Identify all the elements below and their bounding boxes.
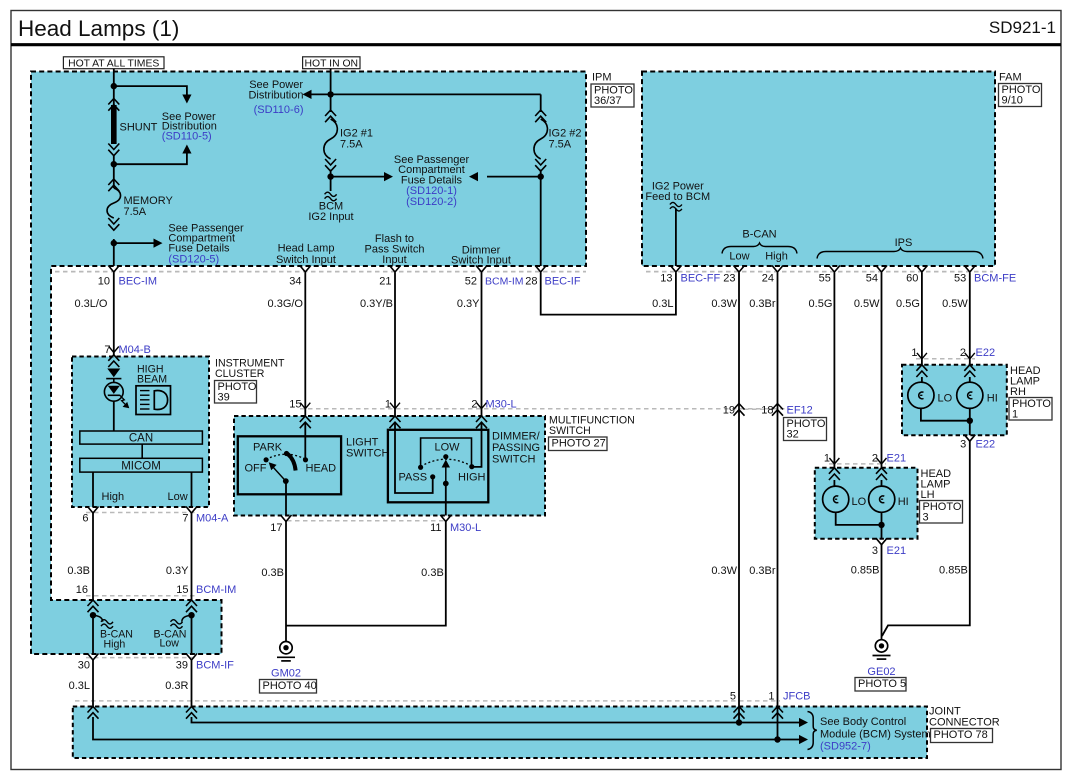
svg-text:LO: LO	[938, 393, 953, 405]
light switch box	[238, 436, 341, 494]
svg-text:0.5G: 0.5G	[896, 298, 920, 310]
wire light switch wiper to pin 17	[285, 481, 287, 515]
title Head Lamps (1)	[18, 16, 179, 41]
svg-text:SWITCH: SWITCH	[549, 425, 591, 437]
pin 28 BEC-IF	[525, 266, 581, 288]
label PASS	[399, 472, 428, 484]
svg-text:(SD120-5): (SD120-5)	[168, 254, 219, 266]
svg-text:2: 2	[872, 453, 878, 465]
label JOINT CONNECTOR with photo box	[929, 706, 1000, 743]
svg-text:BCM-IM: BCM-IM	[196, 584, 236, 596]
svg-text:7.5A: 7.5A	[549, 139, 572, 151]
connector row under FAM	[646, 271, 993, 273]
wire joint lower rail	[93, 717, 799, 740]
svg-text:BEC-IF: BEC-IF	[545, 276, 581, 288]
module joint connector block	[73, 707, 927, 759]
svg-text:1: 1	[911, 347, 917, 359]
svg-text:PARK: PARK	[253, 442, 283, 454]
connector row E21	[829, 463, 886, 465]
svg-text:6: 6	[82, 513, 88, 525]
module FAM block	[642, 72, 995, 267]
ground GE02	[873, 640, 891, 659]
connector M30-L pins 15 1 2	[289, 399, 516, 411]
wire LH bulbs common	[836, 512, 882, 538]
connector E22 pins 1 2	[911, 347, 995, 359]
wire RH bulbs common	[921, 408, 970, 435]
high beam indicator LED	[104, 369, 129, 409]
tail BCM IG2 input	[325, 192, 337, 201]
label head lamp switch input	[276, 243, 336, 267]
wire pin15 to HEAD contact	[304, 423, 306, 460]
label 0.3W upper	[711, 298, 737, 310]
label IPS above brace	[895, 237, 913, 249]
svg-text:PHOTO 78: PHOTO 78	[934, 729, 988, 741]
label 0.3L/O	[74, 298, 107, 310]
label EF12 photo box	[784, 418, 827, 441]
label see passenger compartment fuse details SD120-5	[168, 223, 244, 266]
svg-text:9/10: 9/10	[1002, 94, 1023, 106]
connector JFCB pins 5 1	[730, 691, 811, 703]
label IG2 #2 7.5A	[549, 128, 582, 151]
pin 21	[379, 266, 400, 288]
wire top horizontal to IG2#2	[540, 94, 542, 112]
wire hot-in-on vertical	[330, 69, 332, 112]
fuse MEMORY 7.5A	[107, 179, 121, 230]
wire 0.3Y cluster low	[191, 513, 193, 600]
svg-text:Switch Input: Switch Input	[276, 254, 336, 266]
connector E21 pins 1 2	[824, 453, 906, 465]
wire 0.3R to joint connector	[191, 660, 193, 707]
label 0.3W lower	[711, 565, 737, 577]
label MEMORY 7.5A	[124, 195, 174, 218]
wire hot-at-all-times vertical	[113, 69, 115, 106]
svg-text:HOT IN ON: HOT IN ON	[305, 58, 359, 69]
svg-text:Module (BCM) System: Module (BCM) System	[820, 729, 931, 741]
bulb RH LO	[908, 382, 934, 408]
svg-text:39: 39	[218, 391, 230, 403]
svg-text:CAN: CAN	[129, 433, 153, 445]
svg-text:Low: Low	[160, 638, 180, 650]
pin 24	[762, 266, 783, 285]
connector row under IPM	[55, 271, 586, 273]
label flash to pass switch input	[365, 233, 425, 266]
pin 34	[289, 266, 311, 288]
node joint junction pin1	[774, 736, 780, 742]
svg-text:19: 19	[723, 405, 735, 417]
connector entry cluster M04-B	[108, 355, 119, 367]
block MICOM	[80, 458, 203, 472]
svg-text:55: 55	[819, 273, 831, 285]
wire branch arrow up to SD110-5	[114, 145, 192, 165]
wire 0.5W pin53 to lamp RH 2	[969, 273, 971, 366]
wire 0.85B LH to GE02	[881, 544, 883, 640]
svg-text:13: 13	[660, 273, 672, 285]
brace IPS	[817, 248, 983, 259]
svg-text:SD921-1: SD921-1	[989, 18, 1056, 37]
svg-text:53: 53	[954, 273, 966, 285]
connector M04-B pin 7	[104, 344, 151, 356]
svg-text:BEAM: BEAM	[137, 374, 167, 386]
svg-text:PASSING: PASSING	[492, 442, 540, 454]
svg-text:LOW: LOW	[435, 442, 461, 454]
wire 0.3L/O pin10 to M04-B	[113, 273, 115, 357]
svg-text:Low: Low	[168, 491, 188, 503]
arrow upper to BCM system	[799, 718, 808, 727]
dimmer passing switch box	[388, 430, 488, 503]
wire branch arrow to SD120-5	[114, 239, 163, 248]
dimmer contacts and wiper	[418, 454, 474, 486]
entry chevrons B-CAN block	[88, 600, 198, 612]
connector pins 17 11 M30-L	[270, 522, 481, 534]
entry chevrons joint connector	[88, 707, 784, 719]
svg-text:34: 34	[289, 276, 301, 288]
wire 0.3Br pin24 down to JFCB 1	[777, 273, 779, 718]
svg-text:32: 32	[787, 428, 799, 440]
svg-text:0.3Y: 0.3Y	[166, 565, 189, 577]
svg-text:BCM-FE: BCM-FE	[974, 273, 1016, 285]
svg-text:DIMMER/: DIMMER/	[492, 431, 541, 443]
svg-text:HI: HI	[987, 393, 998, 405]
svg-text:7: 7	[182, 513, 188, 525]
entry chevrons multifunction switch	[300, 416, 487, 428]
svg-text:OFF: OFF	[245, 463, 267, 475]
svg-text:BEC-FF: BEC-FF	[681, 273, 721, 285]
svg-text:EF12: EF12	[787, 405, 813, 417]
svg-text:28: 28	[525, 276, 537, 288]
svg-text:M30-L: M30-L	[450, 522, 481, 534]
svg-text:B-CAN: B-CAN	[742, 229, 776, 241]
svg-text:SHUNT: SHUNT	[120, 122, 158, 134]
label 0.3Y	[457, 298, 480, 310]
svg-text:39: 39	[176, 660, 188, 672]
label 0.3B left	[261, 567, 284, 579]
svg-text:High: High	[765, 251, 788, 263]
tail IG2 power feed	[670, 202, 682, 211]
label B-CAN Low	[154, 629, 187, 650]
module multifunction switch block	[234, 416, 545, 516]
light switch exit pin	[281, 515, 292, 522]
svg-text:CONNECTOR: CONNECTOR	[929, 717, 1000, 729]
svg-text:E22: E22	[976, 439, 996, 451]
svg-text:0.3B: 0.3B	[261, 567, 284, 579]
pin 53 BCM-FE	[954, 266, 1016, 285]
connector EF12 pins 19 18	[723, 404, 813, 417]
svg-text:SWITCH: SWITCH	[492, 454, 535, 466]
wire joint upper rail	[192, 717, 800, 723]
wire MICOM low out	[191, 472, 193, 507]
svg-text:10: 10	[98, 276, 110, 288]
fuse IG2 #2 7.5A	[534, 110, 548, 171]
node junction dot D	[327, 91, 333, 97]
node junction dot F	[538, 173, 544, 179]
wire 0.3W pin23 down to JFCB 5	[738, 273, 740, 718]
svg-text:Feed to BCM: Feed to BCM	[645, 191, 710, 203]
svg-text:LO: LO	[852, 496, 867, 508]
wire 0.5W pin54 to lamp LH 2	[881, 273, 883, 469]
svg-text:54: 54	[866, 273, 878, 285]
svg-text:PHOTO 27: PHOTO 27	[552, 437, 606, 449]
pin 55	[819, 266, 840, 285]
cluster exit pins	[88, 507, 198, 514]
wire horizontal to see power distribution SD110-6 with left arrow	[303, 90, 541, 99]
label 0.5W left	[854, 298, 880, 310]
svg-text:BCM-IM: BCM-IM	[485, 276, 524, 288]
svg-text:0.3R: 0.3R	[165, 680, 188, 692]
node RH common junction	[967, 418, 973, 424]
arrow lower to BCM system	[799, 735, 808, 744]
pin 13 BEC-FF	[660, 266, 720, 285]
wire 0.5G pin60 to lamp RH 1	[921, 273, 923, 366]
module head lamp LH block	[815, 468, 918, 539]
node junction dot E	[327, 173, 333, 179]
svg-text:11: 11	[430, 522, 441, 534]
svg-text:HOT AT ALL TIMES: HOT AT ALL TIMES	[68, 58, 159, 69]
label LO LH	[852, 496, 867, 508]
svg-text:Input: Input	[382, 254, 406, 266]
label HIGH	[458, 472, 486, 484]
label B-CAN High	[100, 629, 133, 651]
tail B-CAN Low twisted pair	[171, 615, 192, 628]
title divider line	[11, 43, 1061, 46]
label 0.3Br lower	[749, 565, 776, 577]
label HEAD	[306, 463, 337, 475]
wire branch arrow left to SD120-2	[469, 172, 541, 181]
label see body control module BCM system	[820, 716, 931, 753]
svg-text:0.85B: 0.85B	[851, 565, 880, 577]
wire pin1 to pass contact	[395, 423, 435, 493]
svg-text:PHOTO 40: PHOTO 40	[263, 680, 317, 692]
svg-text:CLUSTER: CLUSTER	[215, 368, 265, 380]
svg-text:Head Lamps (1): Head Lamps (1)	[18, 16, 179, 41]
wire 0.3B cluster high	[92, 513, 94, 600]
label DIMMER/PASSING SWITCH	[492, 431, 541, 466]
svg-text:17: 17	[270, 522, 282, 534]
label see power distribution SD110-6	[248, 79, 303, 116]
label HEAD LAMP RH with photo box	[1009, 365, 1052, 420]
svg-text:E22: E22	[976, 347, 996, 359]
svg-text:0.3L: 0.3L	[69, 680, 90, 692]
label LIGHT SWITCH	[346, 437, 389, 460]
svg-text:0.3Br: 0.3Br	[749, 565, 776, 577]
svg-text:Head Lamp: Head Lamp	[278, 243, 335, 255]
connector BCM-IF pins 30 39	[78, 660, 234, 672]
bulb LH HI	[869, 486, 895, 512]
label LOW	[435, 442, 461, 454]
label 0.3L	[652, 298, 673, 310]
label GE02	[867, 666, 895, 678]
svg-text:0.3B: 0.3B	[67, 565, 90, 577]
label IG2 #1 7.5A	[340, 128, 373, 151]
brace B-CAN	[722, 243, 797, 254]
label 0.85B left	[851, 565, 880, 577]
svg-text:0.3W: 0.3W	[711, 298, 737, 310]
connector M04-A pins 6 7	[82, 513, 229, 525]
svg-text:0.5W: 0.5W	[942, 298, 968, 310]
dimmer exit pin	[440, 515, 451, 522]
wire CAN to MICOM	[141, 444, 143, 458]
svg-text:0.5G: 0.5G	[809, 298, 833, 310]
svg-text:Low: Low	[729, 251, 749, 263]
ground GM02	[277, 642, 295, 661]
svg-text:30: 30	[78, 660, 90, 672]
wire 0.3Y pin52 to switch	[481, 273, 483, 417]
module instrument cluster block	[72, 357, 209, 508]
wire 0.3L to joint connector	[92, 660, 94, 707]
svg-text:M30-L: M30-L	[486, 399, 517, 411]
svg-text:HEAD: HEAD	[306, 463, 337, 475]
label SHUNT	[120, 122, 158, 134]
node B-CAN high junction	[90, 612, 96, 618]
label GM02	[271, 668, 301, 680]
svg-text:E21: E21	[887, 545, 907, 557]
node junction dot B	[111, 161, 117, 167]
svg-text:IPM: IPM	[592, 72, 612, 84]
svg-text:2: 2	[960, 347, 966, 359]
wire branch arrow right to SD120-1	[331, 172, 393, 181]
label box PHOTO 40	[260, 680, 317, 694]
pin 10 BEC-IM	[98, 266, 157, 288]
label Low High under B-CAN brace	[729, 251, 787, 263]
label MULTIFUNCTION SWITCH with photo box	[549, 415, 635, 451]
svg-text:15: 15	[289, 399, 301, 411]
module IPM block (L-shaped with B-CAN leg)	[31, 72, 586, 655]
wire 0.5G pin55 to lamp LH 1	[833, 273, 835, 469]
wire pin5 drop	[738, 717, 740, 723]
connector row JFCB	[75, 700, 780, 702]
label box HOT IN ON	[303, 57, 360, 70]
label see power distribution SD110-5	[162, 111, 217, 143]
svg-text:0.3W: 0.3W	[711, 565, 737, 577]
svg-text:PASS: PASS	[399, 472, 428, 484]
wire 0.85B RH to GE02	[882, 441, 970, 636]
svg-text:High: High	[104, 639, 126, 651]
svg-text:3: 3	[872, 545, 878, 557]
svg-text:0.5W: 0.5W	[854, 298, 880, 310]
tail B-CAN High twisted pair	[93, 615, 113, 628]
wire 0.3G/O pin34 to switch	[304, 273, 306, 417]
svg-text:JFCB: JFCB	[783, 691, 811, 703]
svg-text:0.3Y: 0.3Y	[457, 298, 480, 310]
svg-text:0.3L/O: 0.3L/O	[74, 298, 107, 310]
connector row EF12	[744, 408, 774, 410]
svg-text:5: 5	[730, 691, 736, 703]
wire 0.3Y/B pin21 to switch	[394, 273, 396, 417]
fuse IG2 #1 7.5A	[324, 110, 338, 171]
wire ig2#2 to pin 28	[540, 170, 542, 267]
label FAM with photo box	[999, 72, 1042, 107]
svg-text:15: 15	[176, 584, 188, 596]
wire through B-CAN low	[191, 613, 193, 655]
connector row E22	[916, 358, 975, 360]
svg-text:FAM: FAM	[999, 72, 1022, 84]
label High Low	[102, 491, 188, 503]
node joint junction pin5	[736, 719, 742, 725]
RH exit pin 3 E22	[960, 435, 995, 451]
svg-text:2: 2	[471, 399, 477, 411]
svg-text:3: 3	[923, 511, 929, 523]
connector row BCM-IF	[86, 657, 196, 659]
svg-text:3: 3	[960, 439, 966, 451]
label 0.5G right	[896, 298, 920, 310]
pin 23	[723, 266, 744, 285]
label INSTRUMENT CLUSTER with photo box	[215, 358, 285, 404]
pin 52 BCM-IM	[465, 266, 524, 288]
svg-text:GE02: GE02	[867, 666, 895, 678]
svg-text:SWITCH: SWITCH	[346, 448, 389, 460]
svg-text:60: 60	[906, 273, 918, 285]
label 0.3B right	[421, 567, 444, 579]
entry chevrons head lamp LH	[829, 468, 887, 480]
bulb LH LO	[823, 486, 849, 512]
svg-text:M04-B: M04-B	[119, 344, 151, 356]
label HEAD LAMP LH with photo box	[920, 468, 963, 523]
svg-text:M04-A: M04-A	[196, 513, 229, 525]
svg-text:52: 52	[465, 276, 477, 288]
light switch contacts and wiper	[264, 451, 309, 484]
svg-text:7: 7	[104, 344, 110, 356]
wire LED to CAN bar	[113, 401, 115, 431]
svg-text:21: 21	[379, 276, 391, 288]
label 0.3L 0.3R	[69, 680, 189, 692]
svg-text:(SD120-2): (SD120-2)	[406, 196, 457, 208]
svg-text:18: 18	[761, 405, 773, 417]
svg-text:E21: E21	[887, 453, 907, 465]
svg-text:24: 24	[762, 273, 774, 285]
svg-text:Switch Input: Switch Input	[451, 255, 511, 267]
block CAN	[80, 431, 203, 445]
label B-CAN above brace	[742, 229, 776, 241]
node junction dot C	[111, 240, 117, 246]
wire IG2 feed to pin 13	[675, 209, 677, 267]
wire RH lamp entries	[922, 377, 970, 382]
label HIGH BEAM	[137, 364, 167, 386]
label HI RH	[987, 393, 998, 405]
pin 54	[866, 266, 887, 285]
svg-text:(SD952-7): (SD952-7)	[820, 741, 871, 753]
svg-text:RH: RH	[1010, 386, 1026, 398]
dimmer n-shaped link	[421, 438, 472, 465]
svg-text:PHOTO 5: PHOTO 5	[858, 678, 906, 690]
connector row M30-L top	[300, 408, 790, 410]
svg-text:GM02: GM02	[271, 668, 301, 680]
wire MICOM high out	[92, 472, 94, 507]
label 0.3Y/B	[360, 298, 393, 310]
label IG2 power feed to BCM	[645, 181, 710, 204]
svg-text:MICOM: MICOM	[121, 460, 161, 472]
svg-text:36/37: 36/37	[594, 95, 622, 107]
label 0.3Br upper	[749, 298, 776, 310]
svg-text:1: 1	[1012, 408, 1018, 420]
svg-text:16: 16	[76, 584, 88, 596]
svg-text:IPS: IPS	[895, 237, 913, 249]
svg-text:See Body Control: See Body Control	[820, 716, 906, 728]
label dimmer switch input	[451, 245, 511, 267]
svg-text:(SD110-6): (SD110-6)	[254, 104, 304, 116]
title code SD921-1	[989, 18, 1056, 37]
svg-text:0.3Y/B: 0.3Y/B	[360, 298, 393, 310]
svg-text:0.3L: 0.3L	[652, 298, 673, 310]
svg-text:1: 1	[824, 453, 830, 465]
label 0.5G left	[809, 298, 833, 310]
wire dimmer wiper to pin 11	[445, 484, 447, 516]
wire through B-CAN high	[92, 613, 94, 655]
shunt symbol	[108, 99, 119, 189]
svg-text:0.3B: 0.3B	[421, 567, 444, 579]
wire ig2#1 to junction	[330, 170, 332, 192]
svg-text:7.5A: 7.5A	[340, 139, 363, 151]
connector row BCM-IM	[86, 595, 196, 597]
svg-text:HI: HI	[898, 496, 909, 508]
